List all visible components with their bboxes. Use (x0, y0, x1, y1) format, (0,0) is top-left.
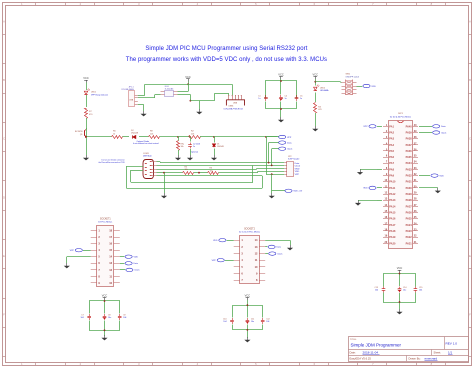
svg-text:1N4148: 1N4148 (131, 133, 139, 135)
svg-text:B: B (3, 78, 5, 82)
svg-text:C2 1113: C2 1113 (193, 144, 200, 146)
svg-text:PA38: PA38 (406, 138, 413, 141)
svg-text:C: C (3, 137, 5, 141)
svg-text:if not soldered use short inst: if not soldered use short instead (133, 142, 158, 145)
svg-text:10k: 10k (191, 133, 194, 135)
svg-text:for 14 & 8 Pins MCUs: for 14 & 8 Pins MCUs (239, 231, 261, 234)
svg-text:C12: C12 (266, 319, 269, 321)
svg-text:COM1: COM1 (143, 153, 150, 155)
svg-text:VPP: VPP (287, 137, 292, 139)
svg-text:PA1: PA1 (389, 125, 394, 128)
svg-text:C11: C11 (251, 319, 254, 321)
svg-text:PA5: PA5 (389, 150, 394, 153)
svg-text:A: A (469, 20, 471, 24)
svg-text:1k: 1k (113, 133, 115, 135)
svg-text:104: 104 (81, 317, 84, 319)
svg-text:PA26: PA26 (406, 212, 413, 215)
svg-text:PA15: PA15 (389, 212, 396, 215)
svg-text:ICSP header: ICSP header (288, 159, 300, 161)
svg-text:LED1: LED1 (91, 92, 97, 94)
svg-text:VPP: VPP (212, 260, 217, 262)
svg-text:104: 104 (375, 290, 378, 292)
svg-text:S-1102-A6: S-1102-A6 (165, 87, 173, 90)
svg-text:1u: 1u (285, 98, 287, 100)
svg-text:PA19: PA19 (389, 236, 396, 239)
svg-text:1u: 1u (193, 146, 195, 148)
svg-text:PA23: PA23 (406, 230, 413, 233)
svg-text:for 40 & 40 Pins MCUs: for 40 & 40 Pins MCUs (390, 115, 411, 118)
svg-text:PA29: PA29 (406, 193, 413, 196)
svg-text:Simple JDM Programmer: Simple JDM Programmer (351, 342, 402, 347)
svg-text:SOCKET2: SOCKET2 (244, 228, 255, 230)
svg-text:LED-AMA: LED-AMA (320, 89, 329, 92)
svg-text:VDD +5V: VDD +5V (293, 191, 302, 193)
svg-text:Drawn By:: Drawn By: (409, 357, 421, 361)
svg-text:Data: Data (295, 162, 300, 165)
svg-text:C14: C14 (403, 287, 406, 289)
svg-text:10u: 10u (251, 321, 254, 323)
svg-text:C10: C10 (223, 319, 226, 321)
svg-text:1u: 1u (258, 98, 260, 100)
svg-text:PA28: PA28 (406, 199, 413, 202)
svg-text:PA3: PA3 (389, 138, 394, 141)
svg-text:Date:: Date: (350, 350, 356, 354)
svg-text:10k: 10k (185, 169, 188, 171)
svg-text:C8: C8 (108, 315, 110, 317)
svg-text:10u: 10u (403, 290, 406, 292)
svg-text:10u: 10u (108, 317, 111, 319)
svg-text:D: D (3, 195, 5, 199)
svg-text:Optional: Optional (191, 150, 199, 153)
svg-text:10k: 10k (150, 133, 153, 135)
svg-text:C9: C9 (123, 315, 125, 317)
svg-text:VDD: VDD (363, 188, 368, 190)
svg-text:C13: C13 (375, 287, 378, 289)
svg-text:PA36: PA36 (406, 150, 413, 153)
svg-text:BC547B: BC547B (75, 131, 83, 133)
svg-text:PA17: PA17 (389, 224, 396, 227)
svg-text:D1: D1 (217, 144, 219, 146)
svg-text:VCC: VCC (245, 294, 251, 298)
svg-text:REV 1.0: REV 1.0 (446, 341, 458, 345)
svg-text:PA35: PA35 (406, 156, 413, 159)
svg-text:LED2: LED2 (320, 87, 326, 89)
svg-text:PA37: PA37 (406, 144, 413, 147)
svg-text:PA2: PA2 (389, 132, 394, 135)
svg-text:VCC: VCC (397, 266, 403, 270)
svg-text:SOCKET1: SOCKET1 (100, 219, 111, 221)
svg-text:VDD: VDD (213, 240, 218, 242)
svg-text:PA34: PA34 (406, 162, 413, 165)
svg-text:VDD: VDD (371, 86, 376, 88)
svg-text:VDD: VDD (134, 257, 139, 259)
svg-text:PA10: PA10 (389, 181, 396, 184)
svg-text:E: E (469, 254, 471, 258)
svg-text:the Pins will be reversed on P: the Pins will be reversed on PCB (98, 161, 125, 164)
svg-text:C7: C7 (81, 315, 83, 317)
svg-text:The programmer works with VDD=: The programmer works with VDD=5 VDC only… (126, 57, 327, 63)
svg-text:ON/OFF switch: ON/OFF switch (346, 75, 360, 78)
svg-text:PA32: PA32 (406, 175, 413, 178)
svg-text:DB9 Male: DB9 Male (143, 156, 153, 158)
svg-text:VCC: VCC (278, 73, 284, 77)
svg-text:1u: 1u (300, 98, 302, 100)
svg-text:TITLE:: TITLE: (350, 339, 357, 341)
svg-text:PA39: PA39 (406, 132, 413, 135)
svg-text:DIP1: DIP1 (398, 113, 404, 115)
svg-text:PA12: PA12 (389, 193, 396, 196)
svg-text:VDD: VDD (295, 171, 300, 173)
svg-text:PA13: PA13 (389, 199, 396, 202)
svg-text:VCC: VCC (313, 73, 319, 77)
svg-text:C1: C1 (258, 96, 260, 98)
svg-text:PA18: PA18 (389, 230, 396, 233)
svg-text:GND: GND (295, 168, 300, 170)
svg-text:PA20: PA20 (389, 242, 396, 245)
svg-text:C15: C15 (419, 287, 422, 289)
svg-text:C: C (469, 137, 471, 141)
svg-text:VCC: VCC (102, 294, 108, 298)
svg-text:VDD: VDD (439, 175, 444, 177)
svg-text:1/1: 1/1 (448, 350, 453, 354)
svg-text:104: 104 (266, 321, 269, 323)
svg-text:PA33: PA33 (406, 168, 413, 171)
svg-text:VPP: VPP (295, 174, 300, 176)
svg-text:D: D (469, 195, 471, 199)
svg-text:10k: 10k (181, 146, 184, 148)
svg-text:CON-USB-F MICRO-B: CON-USB-F MICRO-B (223, 108, 243, 110)
svg-text:A: A (3, 20, 5, 24)
svg-text:PA8: PA8 (389, 168, 394, 171)
svg-text:PA4: PA4 (389, 144, 394, 147)
svg-text:PA6: PA6 (389, 156, 394, 159)
svg-text:B: B (469, 78, 471, 82)
svg-text:PA22: PA22 (406, 236, 413, 239)
svg-text:2018-11-04: 2018-11-04 (363, 350, 379, 354)
svg-text:PA25: PA25 (406, 218, 413, 221)
svg-text:VPP Busy indicator: VPP Busy indicator (91, 93, 108, 96)
svg-text:USB: USB (233, 103, 238, 105)
svg-text:PA24: PA24 (406, 224, 413, 227)
svg-text:Clock: Clock (295, 166, 301, 168)
svg-text:PA9: PA9 (389, 175, 394, 178)
svg-text:PA30: PA30 (406, 187, 413, 190)
svg-text:C5: C5 (300, 96, 302, 98)
svg-text:Sheet:: Sheet: (434, 350, 442, 354)
svg-text:PA27: PA27 (406, 205, 413, 208)
svg-text:E: E (3, 254, 5, 258)
svg-text:VPP: VPP (363, 126, 368, 128)
svg-text:VPP: VPP (70, 250, 75, 252)
svg-text:10k: 10k (210, 170, 213, 172)
svg-text:PA11: PA11 (389, 187, 396, 190)
svg-text:PA21: PA21 (406, 242, 413, 245)
svg-text:PA16: PA16 (389, 218, 396, 221)
svg-text:emerzard: emerzard (425, 357, 438, 361)
svg-text:USB1: USB1 (229, 106, 234, 108)
svg-text:PA40: PA40 (406, 125, 413, 128)
svg-text:104: 104 (123, 317, 126, 319)
svg-text:104: 104 (419, 290, 422, 292)
svg-text:PA14: PA14 (389, 205, 396, 208)
svg-text:EasyEDA V5.6.25: EasyEDA V5.6.25 (350, 357, 372, 361)
svg-text:Simple JDM PIC MCU Programmer: Simple JDM PIC MCU Programmer using Seri… (145, 46, 307, 52)
svg-text:VCC: VCC (83, 76, 89, 80)
svg-text:1N4148: 1N4148 (217, 146, 224, 148)
svg-text:104: 104 (223, 321, 226, 323)
svg-text:PA31: PA31 (406, 181, 413, 184)
svg-text:PA7: PA7 (389, 162, 394, 165)
svg-text:C4: C4 (285, 96, 287, 98)
svg-text:18 Pins MCUs: 18 Pins MCUs (98, 222, 113, 224)
